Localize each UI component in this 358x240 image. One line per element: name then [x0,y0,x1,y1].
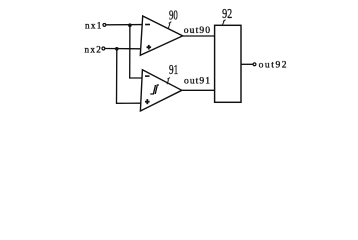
svg-text:90: 90 [169,8,178,23]
wire out92 from block 92 [241,63,253,65]
block 92 [215,25,241,102]
leader line for numeral 90 [168,22,171,29]
svg-text:out91: out91 [184,76,210,87]
junction on nx1 wire [128,23,132,27]
op-amp comparator 91 with hysteresis [140,70,181,111]
pin label minus of 91 [145,75,150,77]
junction on nx2 wire [115,47,119,51]
leader line for numeral 92 [222,20,225,26]
output terminal out92 [253,60,287,71]
hysteresis symbol inside 91 [150,85,159,94]
svg-text:91: 91 [169,62,178,77]
svg-text:92: 92 [222,6,232,21]
wire out90 from comparator 90 to block 92 [183,35,215,37]
wire out91 from comparator 91 to block 92 [182,89,215,91]
leader line for numeral 91 [167,78,170,85]
input terminal nx2 [85,45,105,55]
input terminal nx1 [85,21,106,31]
svg-text:nx1: nx1 [85,21,102,31]
op-amp comparator 90 [140,16,182,55]
pin label plus of 90 [147,45,152,50]
wire nx2 to comparator 90 non-inverting input [105,48,141,50]
wire nx1 to comparator 90 inverting input [106,24,142,26]
pin label plus of 91 [145,99,150,104]
pin label minus of 90 [145,24,150,26]
wire nx2 branch to comparator 91 non-inverting input [117,49,142,104]
svg-text:nx2: nx2 [85,45,102,55]
wire nx1 branch to comparator 91 inverting input [130,25,142,78]
svg-text:out92: out92 [259,60,287,71]
svg-text:out90: out90 [184,25,210,36]
